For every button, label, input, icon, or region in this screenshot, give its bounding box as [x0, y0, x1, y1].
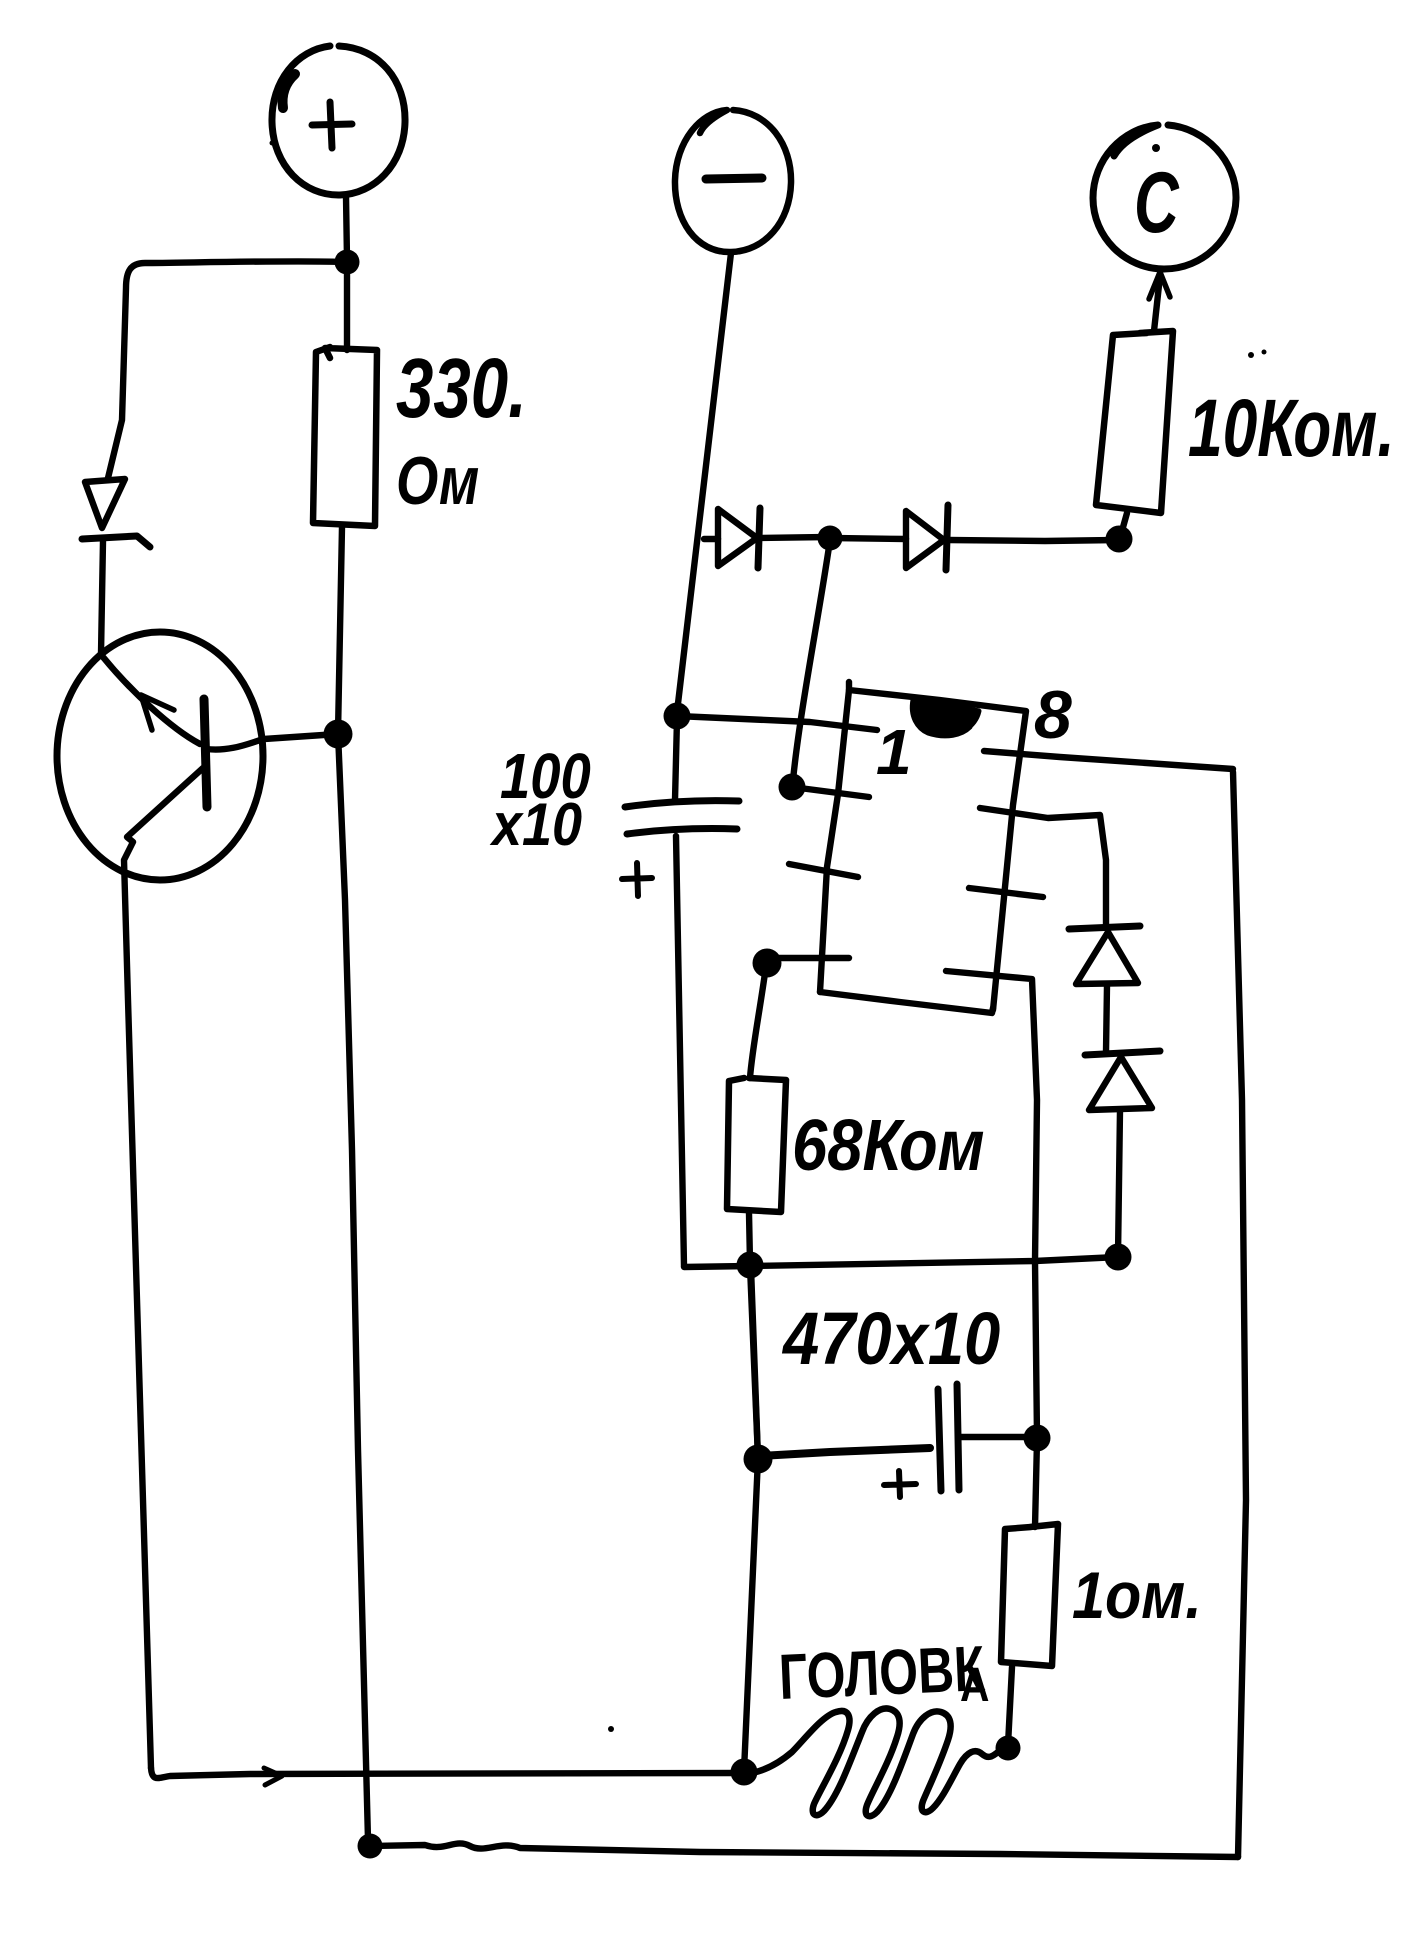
svg-text:330.: 330. [396, 342, 527, 436]
svg-text:470х10: 470х10 [781, 1297, 1000, 1380]
svg-text:Ом: Ом [396, 443, 479, 519]
svg-text:А: А [960, 1659, 989, 1712]
svg-text:1: 1 [876, 716, 912, 788]
svg-text:68Ком: 68Ком [792, 1106, 985, 1186]
svg-text:8: 8 [1034, 677, 1072, 753]
svg-text:1ом.: 1ом. [1072, 1559, 1202, 1633]
svg-text:х10: х10 [489, 791, 582, 858]
svg-text:ГОЛОВК: ГОЛОВК [778, 1633, 987, 1713]
svg-text:10Ком.: 10Ком. [1188, 383, 1395, 474]
svg-text:C: C [1134, 154, 1179, 250]
